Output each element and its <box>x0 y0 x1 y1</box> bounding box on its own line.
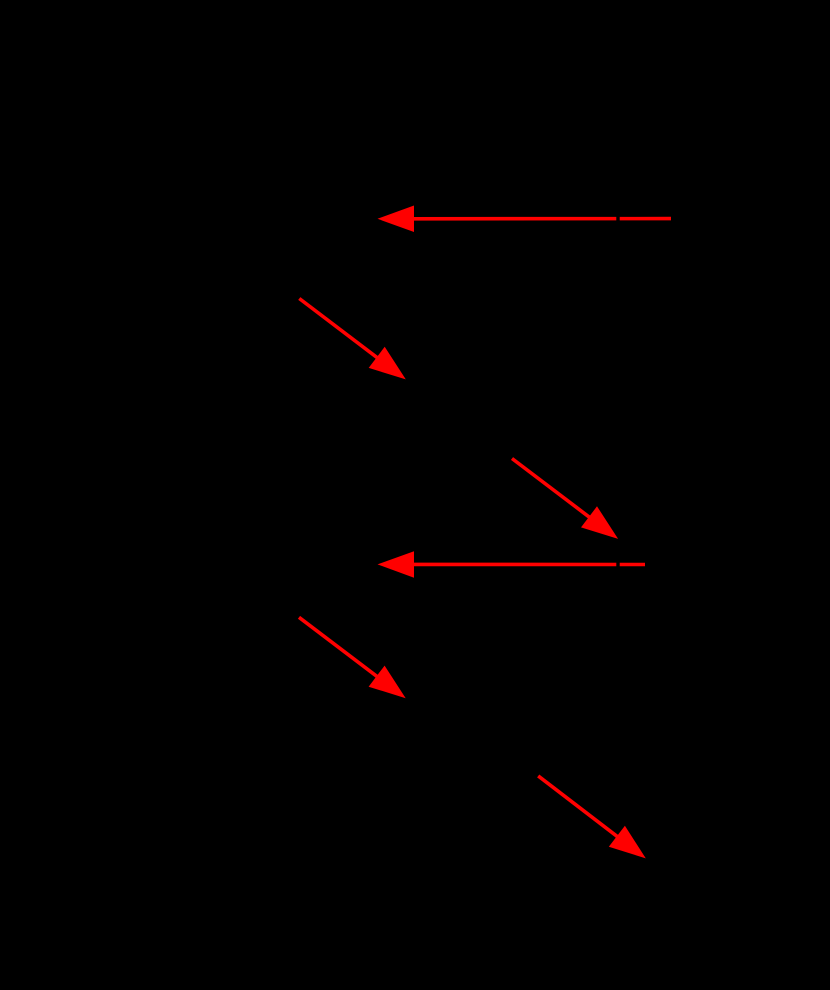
arrow 5 (diagonal, points down-right) <box>299 617 406 698</box>
arrow 2 (diagonal, points down-right) <box>299 299 406 380</box>
notch over arrow 1 (black ink crossing shaft) <box>616 214 619 224</box>
arrow 6 (diagonal, points down-right) <box>538 776 646 859</box>
arrow 3 (diagonal, points down-right) <box>512 459 618 539</box>
notch over arrow 4 (black ink crossing shaft) <box>616 560 619 570</box>
arrow 1 (horizontal, points left) <box>378 206 672 233</box>
arrow 4 (horizontal, points left) <box>378 551 646 578</box>
